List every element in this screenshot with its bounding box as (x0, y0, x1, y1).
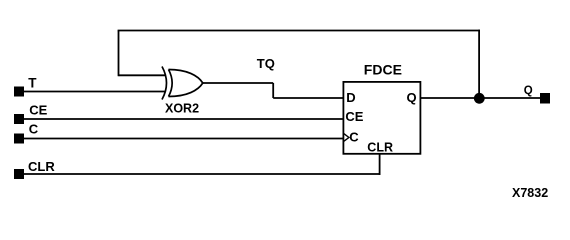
wire CLR horizontal (24, 173, 381, 175)
svg-text:CLR: CLR (367, 141, 393, 155)
svg-text:TQ: TQ (257, 56, 275, 71)
wire feedback top horizontal (118, 30, 480, 32)
wire feedback upper xor input (119, 74, 166, 76)
svg-text:C: C (29, 122, 39, 137)
input terminal C (14, 134, 24, 144)
svg-text:T: T (28, 76, 37, 91)
wire TQ to pin D (273, 97, 343, 99)
svg-text:C: C (349, 130, 359, 145)
svg-text:XOR2: XOR2 (165, 102, 199, 116)
svg-text:Q: Q (407, 90, 417, 105)
svg-text:CE: CE (29, 102, 47, 117)
wire feedback left vertical (118, 31, 120, 77)
wire Q output (420, 97, 540, 99)
output terminal Q (540, 93, 550, 104)
svg-text:X7832: X7832 (512, 186, 548, 200)
clock triangle (344, 134, 349, 142)
wire T (24, 91, 166, 93)
wire TQ from xor output (203, 82, 273, 84)
wire feedback right vertical (478, 30, 480, 98)
svg-text:Q: Q (524, 85, 533, 97)
svg-text:FDCE: FDCE (364, 61, 402, 77)
svg-text:CE: CE (345, 109, 363, 124)
wire TQ vertical (272, 83, 274, 98)
xor gate XOR2 (162, 67, 203, 100)
wire C (24, 138, 343, 140)
svg-text:D: D (346, 90, 355, 105)
junction dot (474, 93, 485, 104)
input terminal CE (14, 114, 24, 124)
input terminal CLR (14, 169, 24, 179)
wire CLR vertical to FDCE (379, 154, 381, 175)
svg-text:CLR: CLR (28, 159, 55, 174)
flip-flop U1 FDCE body (343, 82, 420, 154)
input terminal T (14, 87, 24, 97)
wire CE (24, 118, 343, 120)
